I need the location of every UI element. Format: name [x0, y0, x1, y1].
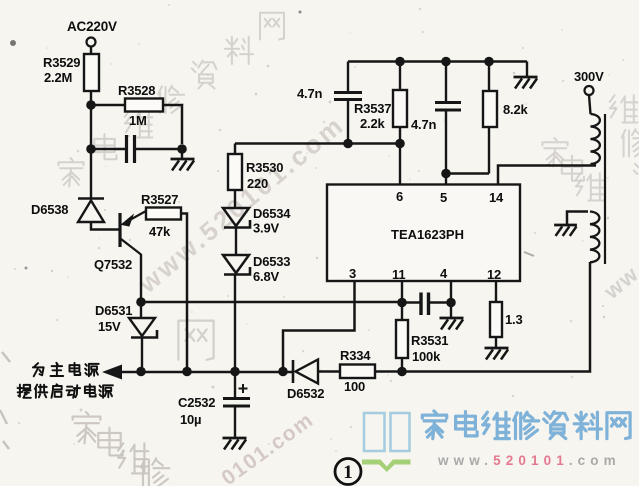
pin 11 label — [392, 267, 405, 282]
wire pin12 down — [495, 281, 497, 302]
svg-text:10µ: 10µ — [180, 412, 201, 427]
watermark www.520101.com diagonal middle — [132, 109, 351, 299]
svg-text:Q7532: Q7532 — [94, 257, 132, 272]
watermark chinese chars bottom-left — [73, 412, 170, 488]
wire D6533 down to bottom bus — [234, 275, 236, 372]
svg-text:2.2M: 2.2M — [44, 70, 72, 85]
pin 6 label — [396, 189, 403, 204]
label D6531 15V — [95, 303, 132, 334]
svg-text:15V: 15V — [98, 319, 121, 334]
wire bus to R3537 — [399, 62, 401, 91]
node A junction — [86, 100, 96, 110]
svg-text:D6533: D6533 — [253, 254, 290, 269]
logo url www.520101.com — [437, 453, 621, 468]
scan smudges near pin 14 — [496, 196, 534, 256]
svg-text:100k: 100k — [412, 349, 441, 364]
watermark net char left-middle — [178, 321, 213, 360]
wire node E to transformer bottom — [402, 262, 590, 372]
node pin4 junction — [446, 298, 456, 308]
pin 14 label — [489, 190, 504, 205]
svg-text:R3530: R3530 — [246, 160, 283, 175]
svg-text:D6534: D6534 — [253, 206, 291, 221]
wire bus to 8.2k — [488, 62, 490, 92]
wire D6531 to bottom bus — [141, 338, 143, 372]
resistor R3529 — [84, 54, 99, 91]
svg-text:4.7n: 4.7n — [411, 117, 436, 132]
wire winding2 top to ground stub — [567, 212, 588, 225]
resistor R3528 — [125, 99, 163, 112]
node E junction — [397, 367, 407, 377]
wire terminal to R3529 — [90, 47, 92, 55]
ground winding2 — [554, 225, 577, 236]
terminal AC220V — [87, 38, 96, 47]
zener D6533 — [223, 255, 250, 275]
svg-text:47k: 47k — [149, 224, 171, 239]
wire pin4 down — [450, 281, 452, 303]
label D6538 — [31, 202, 68, 217]
wire node C to ground — [181, 149, 183, 158]
label R3529 2.2M — [43, 55, 80, 85]
resistor R3527 — [146, 208, 181, 220]
wire bottom bus left segment — [120, 371, 293, 373]
wire bus left down to cap 4.7n — [347, 62, 349, 93]
wire node B down to D6538 — [90, 149, 92, 198]
resistor R3537 — [393, 90, 407, 127]
label 4.7n left — [297, 86, 322, 101]
svg-text:6.8V: 6.8V — [253, 269, 279, 284]
svg-text:1: 1 — [343, 462, 353, 483]
ground top-left — [171, 159, 195, 171]
diode D6532 — [293, 360, 340, 384]
node D junction — [136, 297, 146, 307]
node pin3 wire junction — [278, 367, 288, 377]
node R3527 bottom junction — [182, 367, 192, 377]
inductor winding2 secondary — [590, 212, 599, 263]
label R3531 100k — [411, 333, 448, 364]
logo text jiadian weixiu ziliao wang — [422, 411, 630, 439]
wire pin3 L-shape — [283, 281, 355, 372]
wire R3528 right to corner down — [163, 105, 182, 144]
svg-text:D6538: D6538 — [31, 202, 68, 217]
wire winding1 bottom to pin14 wire — [591, 164, 597, 166]
wire capacitor to node C — [135, 148, 182, 150]
wire node D to pin11 node horizontal — [141, 301, 402, 303]
diode D6538 — [78, 199, 104, 223]
terminal 300V — [585, 86, 594, 95]
label R3527 47k — [141, 192, 178, 239]
wire top bus — [348, 60, 527, 63]
node AC220V label — [67, 19, 117, 34]
svg-text:C2532: C2532 — [178, 395, 215, 410]
ground top bus right — [514, 77, 538, 89]
svg-text:www.520101.com: www.520101.com — [437, 453, 621, 468]
svg-text:R3531: R3531 — [411, 333, 448, 348]
wire D6534 to D6533 — [235, 228, 237, 255]
ground C2532 — [223, 438, 247, 450]
resistor R3530 — [228, 154, 242, 190]
label D6534 3.9V — [253, 206, 291, 236]
label D6532 — [287, 386, 324, 401]
svg-text:R3527: R3527 — [141, 192, 178, 207]
wire 1.3 to ground — [495, 337, 497, 347]
wire pin4 junction to ground — [450, 303, 452, 318]
wire pin11 junction to R3531 — [401, 303, 403, 321]
label TEA1623PH — [391, 227, 464, 242]
node D6531 bottom junction — [136, 367, 146, 377]
wire bus to cap 4.7n mid — [445, 62, 447, 103]
svg-text:R334: R334 — [340, 348, 371, 363]
resistor R3531 — [396, 320, 408, 358]
label 8.2k — [503, 102, 528, 117]
wire R3537 to pin6 — [399, 127, 401, 184]
watermark chinese chars right edge — [610, 95, 639, 190]
wire node A down to node B — [90, 105, 92, 149]
scan marks left edge bottom — [0, 352, 10, 449]
node R3537 bottom junction — [395, 139, 405, 149]
label D6533 6.8V — [253, 254, 290, 284]
wire R334 to node E — [375, 370, 402, 372]
svg-text:100: 100 — [344, 379, 365, 394]
wire D6538 to transistor base — [91, 222, 119, 230]
pin 4 label — [440, 266, 448, 281]
svg-text:TEA1623PH: TEA1623PH — [391, 227, 464, 242]
svg-text:AC220V: AC220V — [67, 19, 117, 34]
circled number 1 — [335, 459, 361, 485]
node bus cap junction — [441, 57, 451, 67]
capacitor C2532 polarized — [223, 372, 250, 438]
svg-text:3: 3 — [349, 266, 356, 281]
svg-text:6: 6 — [396, 189, 403, 204]
resistor 1.3 — [490, 302, 502, 337]
label R3537 2.2k — [354, 101, 391, 131]
label C2532 10u — [178, 395, 215, 427]
svg-text:300V: 300V — [574, 69, 604, 84]
node pin11 junction — [397, 298, 407, 308]
label 300V — [574, 69, 604, 84]
watermark chinese chars right of IC — [542, 138, 603, 201]
wire pin5 junction to 8.2k bottom — [446, 172, 489, 174]
svg-text:11: 11 — [392, 267, 405, 282]
label Q7532 — [94, 257, 132, 272]
capacitor 4.7n mid — [435, 103, 461, 174]
arrow output to main power — [102, 365, 122, 380]
svg-text:D6532: D6532 — [287, 386, 324, 401]
capacitor pin11-pin4 — [402, 293, 451, 316]
wire pin5 stub — [445, 174, 447, 185]
capacitor top-left — [127, 135, 135, 163]
svg-text:2.2k: 2.2k — [360, 116, 385, 131]
svg-text:14: 14 — [489, 190, 504, 205]
wire corner to R3530 — [234, 144, 237, 155]
wire terminal to winding1 — [589, 95, 591, 114]
svg-text:3.9V: 3.9V — [253, 221, 279, 236]
pin 12 label — [487, 267, 501, 282]
resistor 8.2k — [483, 91, 497, 127]
wire 8.2k bottom lead — [488, 127, 490, 174]
wire node A to R3528 — [91, 104, 125, 106]
wire pin14 to transformer — [498, 166, 596, 185]
node C junction — [177, 144, 187, 154]
watermark w letters bottom-right edge — [598, 261, 639, 305]
logo book green base — [362, 460, 411, 473]
label 4.7n mid — [411, 117, 436, 132]
svg-text:R3537: R3537 — [354, 101, 391, 116]
node bus R3537 junction — [395, 57, 405, 67]
inductor winding1 primary — [591, 114, 600, 164]
wire R3530 to D6534 — [234, 190, 236, 208]
ground pin4 — [440, 318, 464, 330]
transistor Q7532 — [120, 211, 146, 255]
label R3530 220 — [246, 160, 283, 191]
wire R3531 to node E — [401, 358, 403, 372]
watermark 101.com bottom-middle — [217, 408, 318, 490]
label R3528 1M — [118, 83, 155, 128]
transformer core — [604, 114, 606, 264]
ground pin12 — [485, 348, 509, 360]
wire pin11 down — [401, 281, 403, 302]
svg-text:12: 12 — [487, 267, 501, 282]
svg-text:R3529: R3529 — [43, 55, 80, 70]
svg-text:4: 4 — [440, 266, 448, 281]
node C2532 junction — [230, 367, 240, 377]
wire node B to capacitor — [91, 148, 126, 150]
op-amp IC U1 TEA1623PH box — [327, 185, 520, 282]
pin 3 label — [349, 266, 356, 281]
node pin5 junction — [441, 169, 451, 179]
svg-text:8.2k: 8.2k — [503, 102, 528, 117]
svg-text:1M: 1M — [129, 113, 147, 128]
wire R3527 right down to bottom bus — [181, 214, 187, 372]
wire node D to D6531 — [140, 302, 142, 318]
wire R3529 to node A — [90, 91, 92, 105]
pin 5 label — [440, 190, 447, 205]
node cap-R3530 junction — [343, 139, 353, 149]
resistor R334 — [340, 365, 375, 379]
svg-text:1.3: 1.3 — [505, 312, 522, 327]
scan speck top-left — [10, 11, 302, 270]
svg-text:D6531: D6531 — [95, 303, 132, 318]
wire collector down to node D — [140, 254, 142, 302]
wire R3530 corner to R3537 bottom — [235, 142, 400, 144]
label chinese provide startup power line1 — [33, 363, 99, 377]
label 1.3 — [505, 312, 522, 327]
logo book icon blue pages — [364, 413, 410, 451]
node B junction — [86, 144, 96, 154]
zener D6534 — [223, 208, 250, 228]
watermark diagonal chinese text top-left — [58, 13, 284, 187]
label chinese provide startup power line2 — [18, 384, 113, 398]
node bus 8.2k junction — [484, 57, 494, 67]
capacitor 4.7n left — [334, 93, 362, 144]
svg-text:220: 220 — [247, 176, 268, 191]
wire bus to ground — [526, 62, 528, 77]
zener D6531 — [129, 318, 157, 338]
svg-text:5: 5 — [440, 190, 447, 205]
svg-text:4.7n: 4.7n — [297, 86, 322, 101]
svg-text:R3528: R3528 — [118, 83, 155, 98]
label R334 100 — [340, 348, 371, 394]
